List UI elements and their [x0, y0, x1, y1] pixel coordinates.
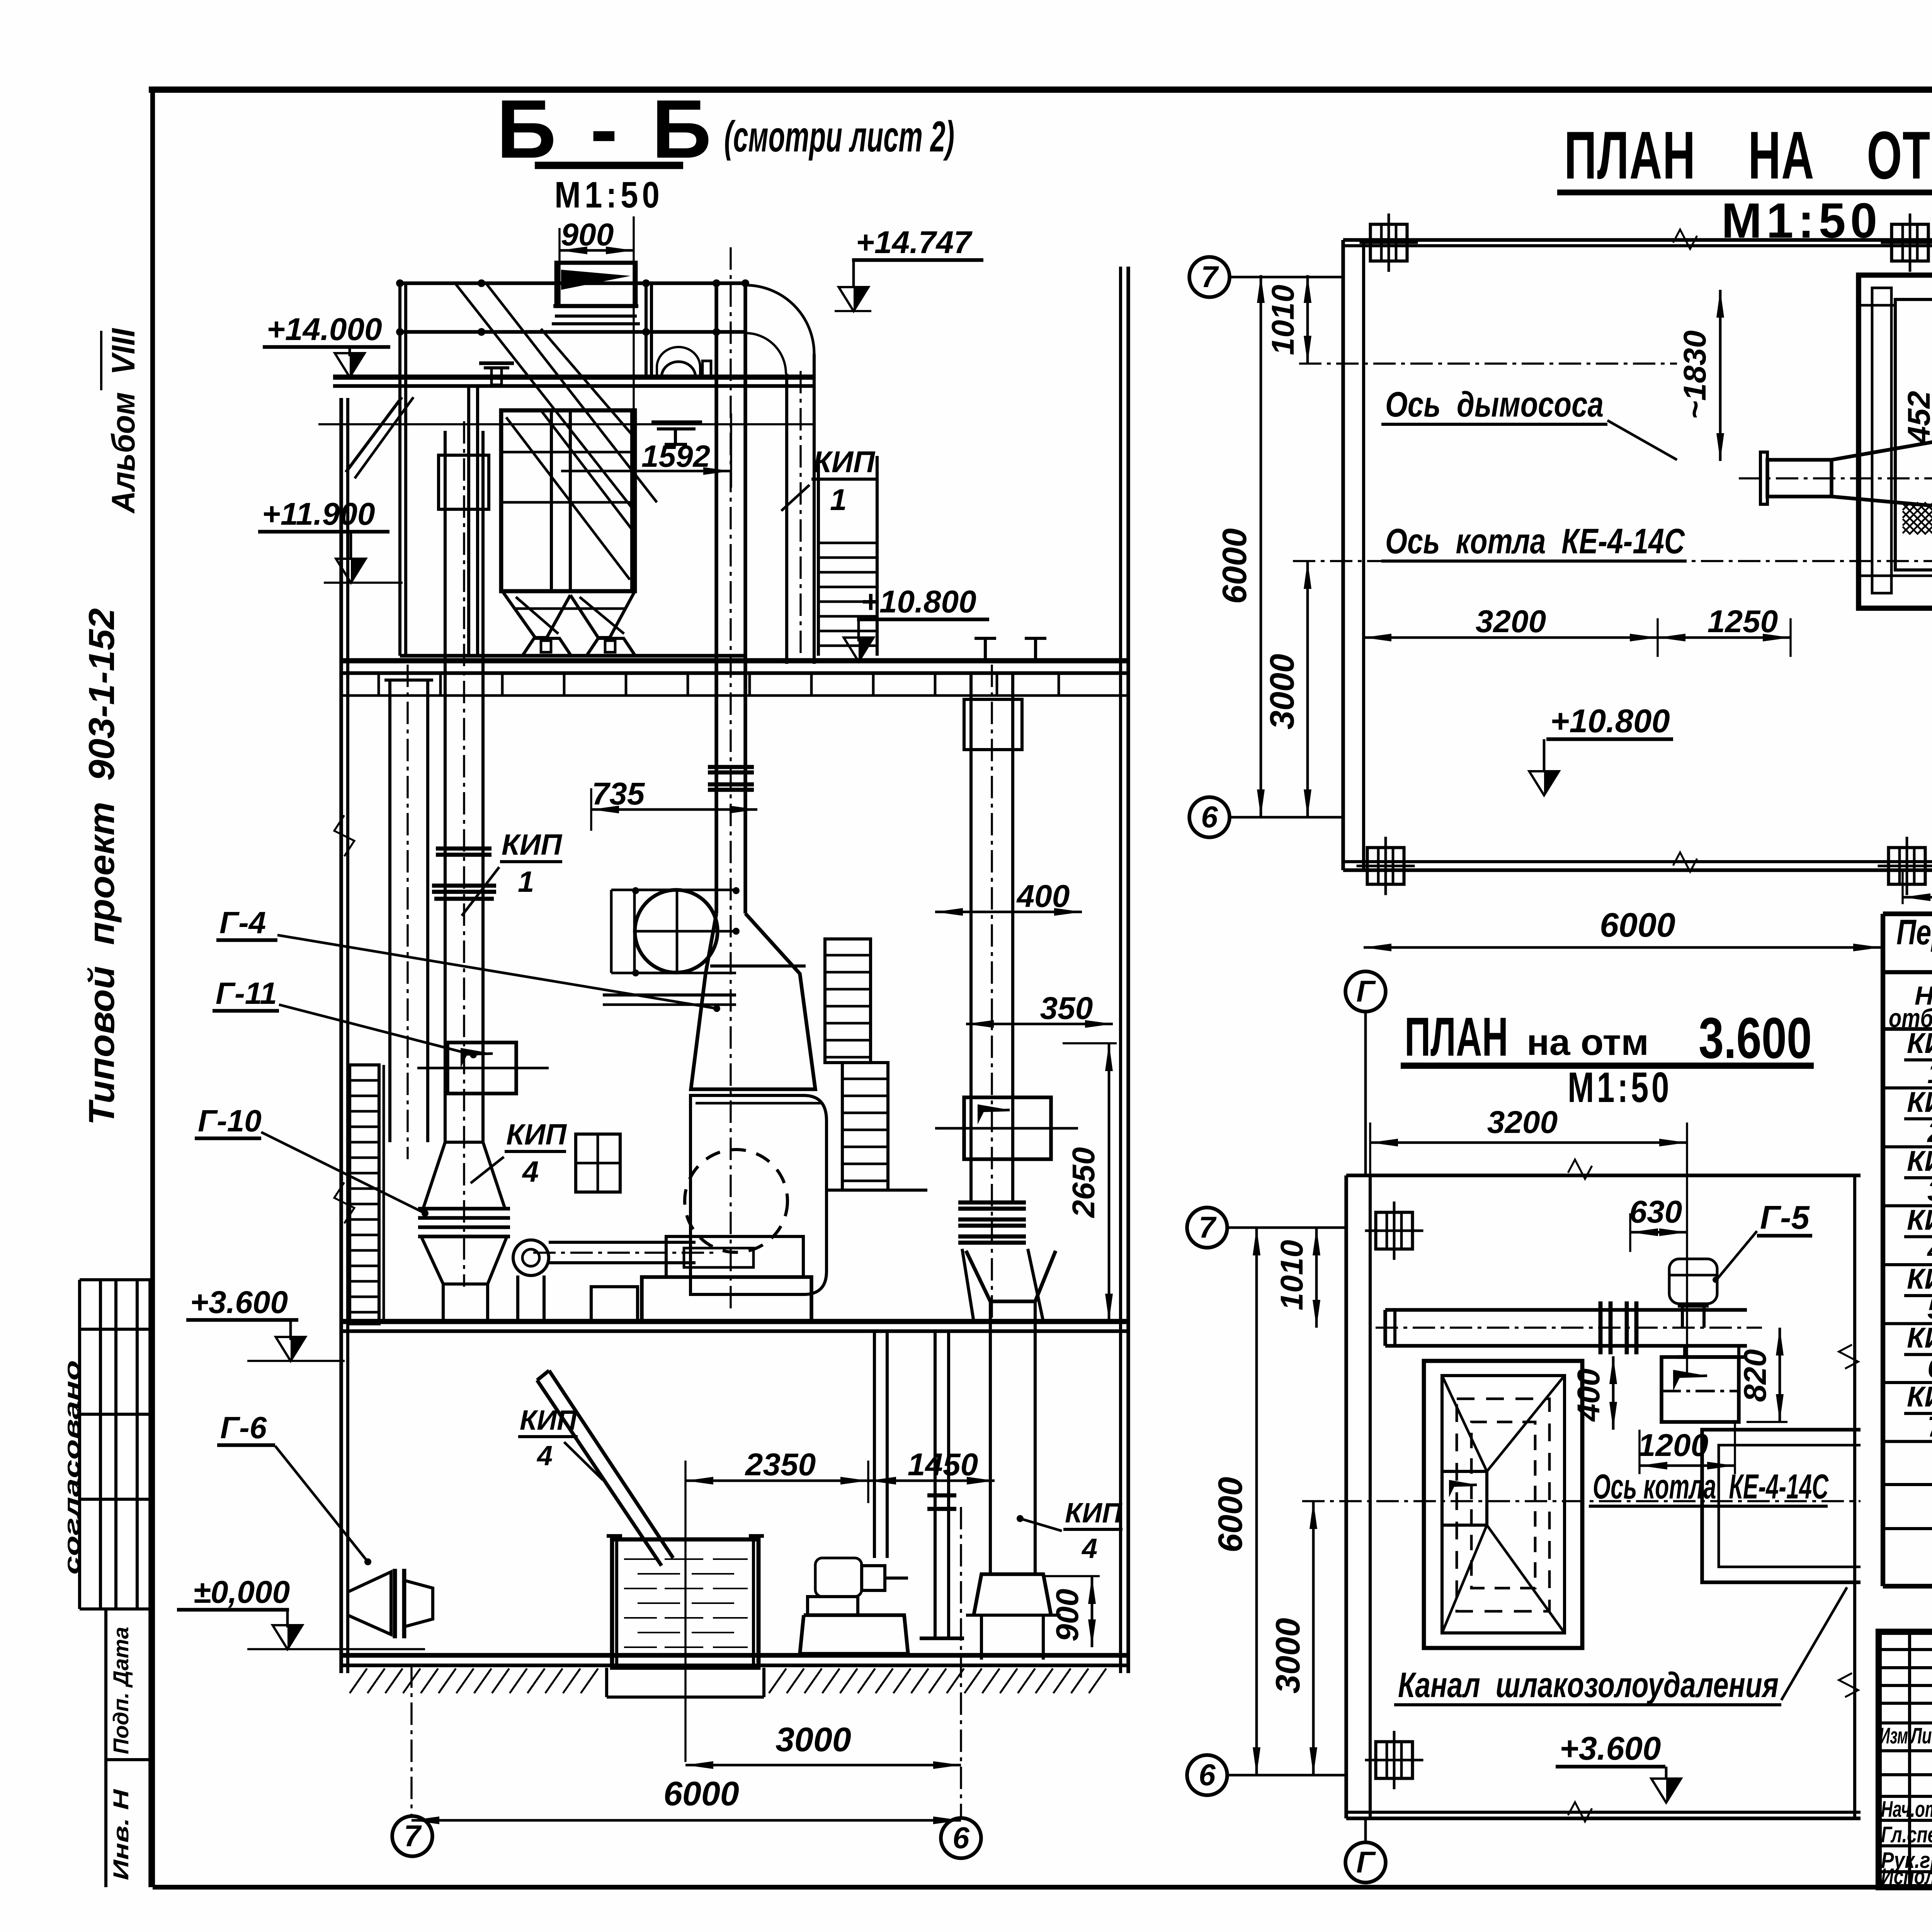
svg-text:КИП: КИП — [1907, 1086, 1932, 1118]
expansion cone left duct — [423, 1142, 505, 1209]
bottom left exhaust nozzle — [348, 1572, 391, 1634]
svg-text:М1:50: М1:50 — [1568, 1064, 1672, 1111]
pit diagonals — [1442, 1376, 1487, 1471]
svg-text:3000: 3000 — [1269, 1618, 1307, 1694]
svg-text:КИП: КИП — [1907, 1027, 1932, 1059]
suction pipe plan3600 — [1385, 1308, 1747, 1312]
svg-text:КИП: КИП — [502, 828, 562, 861]
svg-text:Г-6: Г-6 — [220, 1410, 267, 1445]
sheet frame — [149, 87, 1932, 93]
svg-text:Г-11: Г-11 — [216, 976, 277, 1010]
svg-text:1: 1 — [1927, 1057, 1932, 1089]
dim 2350 — [685, 1480, 868, 1482]
svg-text:Г-10: Г-10 — [198, 1104, 262, 1138]
damper box on duct — [447, 1043, 516, 1094]
svg-text:Инв. Н: Инв. Н — [109, 1789, 133, 1880]
svg-text:Лист: Лист — [1910, 1723, 1932, 1748]
boiler unit plan — [1859, 275, 1932, 608]
pump vertical pipe — [873, 1331, 876, 1558]
svg-text:Г: Г — [1356, 1845, 1376, 1879]
duct2 — [444, 431, 447, 1142]
svg-text:735: 735 — [592, 776, 645, 811]
tank pit — [605, 1668, 608, 1697]
axis line 6 — [960, 1507, 962, 1818]
svg-text:3000: 3000 — [1263, 654, 1301, 730]
svg-text:1200: 1200 — [1638, 1428, 1708, 1463]
svg-text:Ось котла КЕ-4-14С: Ось котла КЕ-4-14С — [1385, 522, 1685, 561]
dim 1450 — [868, 1480, 995, 1482]
svg-text:Подп. Дата: Подп. Дата — [109, 1627, 133, 1754]
svg-text:6000: 6000 — [1211, 1477, 1249, 1553]
svg-text:7: 7 — [404, 1819, 422, 1853]
svg-text:3.600: 3.600 — [1699, 1005, 1812, 1070]
svg-text:3000: 3000 — [776, 1720, 851, 1759]
svg-text:Типовой проект 903-1-152: Типовой проект 903-1-152 — [81, 608, 122, 1125]
grid box window — [576, 1134, 620, 1192]
bellows right duct — [958, 1201, 1026, 1205]
dim 630 — [1630, 1231, 1687, 1234]
platform small under fan — [603, 993, 736, 997]
chimney flanges — [708, 765, 754, 769]
svg-text:3: 3 — [1927, 1175, 1932, 1207]
svg-text:6000: 6000 — [1600, 906, 1675, 944]
svg-text:Альбом VIII: Альбом VIII — [105, 328, 141, 514]
svg-text:1010: 1010 — [1274, 1240, 1310, 1310]
slag channel pit — [1424, 1361, 1582, 1648]
upper diag braces — [456, 284, 634, 510]
svg-text:452: 452 — [1901, 391, 1932, 445]
svg-text:+3.600: +3.600 — [190, 1285, 288, 1320]
pit center box — [1442, 1471, 1487, 1525]
bracket strut left — [346, 397, 402, 472]
duct bend top — [745, 285, 814, 354]
axis дымососа — [1299, 362, 1677, 364]
air duct left — [388, 680, 391, 1142]
axis bubble 6 — [941, 1818, 981, 1858]
svg-text:1450: 1450 — [908, 1447, 978, 1482]
svg-text:Ось дымососа: Ось дымососа — [1385, 385, 1604, 424]
svg-text:Г-4: Г-4 — [219, 905, 266, 940]
dim 6000 plan10800 — [1260, 275, 1262, 817]
duct2 flanges — [436, 847, 492, 851]
svg-text:6: 6 — [1201, 800, 1218, 834]
axis bubble 7 — [392, 1816, 432, 1856]
title block left grid rows — [1879, 1648, 1932, 1651]
dim 1010 plan10800 — [1306, 275, 1309, 364]
right wall — [1119, 267, 1122, 1673]
svg-text:1: 1 — [518, 866, 534, 898]
break marks left wall — [334, 815, 354, 856]
svg-text:Изм: Изм — [1879, 1723, 1908, 1748]
согласовано block — [80, 1278, 150, 1281]
svg-text:2350: 2350 — [745, 1447, 816, 1482]
svg-text:КИП: КИП — [1907, 1381, 1932, 1413]
bubble 6 plan3600 — [1187, 1755, 1227, 1795]
title block outer — [1879, 1632, 1932, 1887]
damper box right duct — [964, 1097, 1051, 1159]
dim 6000 bottom plan — [1364, 946, 1881, 949]
ground hatch — [350, 1668, 598, 1693]
svg-text:400: 400 — [1571, 1369, 1606, 1422]
right duct kip4 — [969, 673, 973, 1202]
svg-text:900: 900 — [1050, 1589, 1085, 1642]
table outer — [1883, 912, 1932, 916]
dim 1250 plan10800 — [1658, 636, 1791, 639]
dim 3000 plan10800 — [1306, 561, 1309, 817]
bubble Г top — [1345, 971, 1386, 1012]
bubble 7 plan3600 — [1187, 1207, 1227, 1248]
svg-text:2: 2 — [1927, 1116, 1932, 1148]
svg-text:КИП: КИП — [506, 1118, 567, 1151]
svg-text:4: 4 — [1081, 1533, 1097, 1564]
floor joists — [378, 673, 380, 696]
right channel box — [1702, 1430, 1861, 1582]
horizontal pipe to boiler — [549, 1241, 696, 1244]
dim 735 — [591, 808, 757, 811]
svg-text:Б - Б: Б - Б — [497, 82, 717, 175]
svg-text:М1:50: М1:50 — [554, 174, 663, 216]
axis line 7 — [410, 1665, 412, 1816]
scrubber box — [690, 1095, 827, 1294]
floor slab +10.800 — [340, 658, 1128, 663]
stairs right of collector — [817, 456, 820, 656]
svg-text:400: 400 — [1016, 879, 1070, 914]
svg-text:6: 6 — [1927, 1352, 1932, 1384]
dim 6000 plan3600 — [1255, 1228, 1258, 1775]
dim 3000 plan3600 — [1312, 1501, 1315, 1775]
exhauster plan — [1767, 460, 1832, 497]
svg-text:820: 820 — [1738, 1349, 1773, 1402]
svg-text:7: 7 — [1201, 260, 1219, 294]
title block left grid verticals — [1908, 1632, 1911, 1887]
platform beams top — [400, 281, 745, 285]
chimney upper — [714, 283, 718, 913]
svg-text:1250: 1250 — [1708, 604, 1778, 639]
svg-text:КИП: КИП — [520, 1405, 578, 1436]
diffuser cone center — [691, 913, 815, 1089]
dome hatch on slab — [662, 362, 696, 377]
dim 3200 plan3600 — [1370, 1141, 1687, 1144]
svg-text:3200: 3200 — [1476, 604, 1546, 639]
svg-text:3200: 3200 — [1487, 1105, 1558, 1140]
svg-text:Нач.отд.: Нач.отд. — [1881, 1797, 1932, 1822]
svg-text:КИП: КИП — [1907, 1145, 1932, 1177]
dim 1200 — [1639, 1464, 1735, 1467]
dim 400 — [935, 911, 1082, 913]
platform legs — [398, 283, 401, 656]
svg-text:1: 1 — [830, 483, 847, 517]
svg-text:630: 630 — [1629, 1194, 1682, 1230]
dim 3000 bottom — [685, 1764, 961, 1767]
machine on +3.600 floor — [666, 1236, 803, 1277]
axis bubble 7 plan10800 — [1189, 257, 1230, 297]
svg-text:Перечень нормалей для установк: Перечень нормалей для установки отборных… — [1896, 913, 1932, 952]
svg-text:(смотри лист 2): (смотри лист 2) — [724, 112, 954, 161]
header bottom — [1883, 1027, 1932, 1031]
svg-text:6: 6 — [1199, 1758, 1216, 1792]
table empty row lines — [1883, 1483, 1932, 1486]
dim 400 plan3600 — [1612, 1356, 1615, 1430]
dust collector body — [501, 410, 635, 591]
motor on pipe — [1669, 1259, 1717, 1304]
right duct cone down — [962, 1249, 1043, 1321]
dim 350 — [966, 1023, 1113, 1026]
svg-text:900: 900 — [561, 217, 614, 252]
svg-text:+14.000: +14.000 — [267, 312, 382, 347]
right duct collar — [964, 699, 1022, 750]
floor slab 0.000 — [340, 1653, 1128, 1658]
svg-text:4: 4 — [522, 1155, 539, 1188]
svg-text:+11.900: +11.900 — [262, 497, 375, 532]
svg-text:4: 4 — [1927, 1234, 1932, 1266]
inclined chute — [549, 1371, 673, 1558]
pilasters plan10800 — [1371, 224, 1407, 261]
dim 1830 — [1719, 290, 1722, 461]
svg-text:+10.800: +10.800 — [1550, 703, 1670, 740]
plan 3600 walls — [1346, 1173, 1861, 1177]
svg-text:ПЛАН: ПЛАН — [1405, 1006, 1508, 1068]
table header row — [1883, 970, 1932, 975]
svg-text:КИП: КИП — [813, 445, 876, 479]
bubble Г bottom — [1345, 1842, 1386, 1883]
svg-text:согласовано: согласовано — [60, 1360, 84, 1575]
svg-text:КИП: КИП — [1065, 1498, 1123, 1529]
dim 900 vert — [1091, 1576, 1094, 1647]
elbow box below pipe — [1683, 1346, 1686, 1357]
dim 2650 — [1108, 1043, 1111, 1321]
dim 6000 bottom — [412, 1819, 961, 1822]
handrail posts on floor — [984, 638, 987, 661]
elbow pipe small — [513, 1240, 549, 1276]
dim 1500 plan — [1903, 896, 1932, 899]
top hopper box — [556, 263, 636, 306]
svg-text:Гл.спец.: Гл.спец. — [1881, 1822, 1932, 1847]
svg-text:ПЛАН НА ОТМ. 10.800: ПЛАН НА ОТМ. 10.800 — [1564, 118, 1932, 193]
dim 1010 plan3600 — [1315, 1228, 1318, 1328]
svg-text:на отм: на отм — [1527, 1022, 1649, 1063]
svg-text:КИП: КИП — [1907, 1263, 1932, 1295]
svg-text:+3.600: +3.600 — [1560, 1730, 1661, 1767]
axis bubble 6 plan10800 — [1189, 797, 1230, 837]
svg-text:5: 5 — [1927, 1293, 1932, 1325]
svg-text:6000: 6000 — [1215, 528, 1253, 604]
svg-text:350: 350 — [1040, 991, 1093, 1026]
dim 820 — [1779, 1328, 1781, 1422]
ladder left wall — [350, 1065, 379, 1324]
svg-text:+14.747: +14.747 — [856, 225, 973, 260]
plan walls — [1343, 238, 1932, 242]
svg-text:7: 7 — [1927, 1411, 1932, 1443]
small vent on slab — [479, 361, 514, 365]
svg-text:±0,000: ±0,000 — [193, 1575, 290, 1610]
svg-text:2650: 2650 — [1066, 1147, 1101, 1218]
dim 900 top — [560, 249, 634, 252]
wall break marks — [1673, 230, 1697, 249]
svg-text:Канал шлакозолоудаления: Канал шлакозолоудаления — [1398, 1665, 1779, 1705]
svg-text:7: 7 — [1199, 1210, 1217, 1244]
pilasters plan3600 — [1376, 1213, 1413, 1249]
fan circle mid — [635, 890, 718, 973]
svg-text:Исполн.: Исполн. — [1881, 1864, 1932, 1889]
svg-text:4: 4 — [536, 1440, 553, 1471]
second pipe with flanges — [934, 1331, 937, 1638]
svg-text:КИП: КИП — [1907, 1204, 1932, 1236]
kip duct down right — [785, 374, 788, 664]
подп дата box — [104, 1609, 107, 1887]
platform slab +14.000 — [333, 374, 814, 380]
pipe flanges — [1599, 1301, 1603, 1354]
svg-text:6: 6 — [952, 1821, 969, 1855]
hopper support floor — [400, 654, 744, 658]
stairs mid right — [825, 939, 871, 1063]
svg-text:~1830: ~1830 — [1677, 330, 1713, 419]
svg-text:Г-5: Г-5 — [1760, 1199, 1810, 1236]
pump and motor — [815, 1558, 862, 1597]
sampling port fitting — [651, 420, 702, 423]
svg-text:Г: Г — [1356, 974, 1376, 1008]
floor slab +3.600 — [340, 1319, 1128, 1324]
svg-text:1010: 1010 — [1265, 285, 1301, 355]
cone feet — [522, 638, 571, 656]
svg-text:6000: 6000 — [663, 1774, 739, 1813]
small box left on floor — [591, 1287, 638, 1321]
right fan unit bottom — [966, 1251, 1056, 1301]
dim 3200 plan10800 — [1364, 636, 1658, 639]
3600 wall breaks — [1568, 1160, 1592, 1179]
flange stack — [418, 1207, 510, 1211]
lower taper — [421, 1236, 507, 1284]
left wall — [339, 398, 343, 1673]
collector cones — [502, 591, 570, 638]
water tank — [612, 1539, 759, 1668]
svg-text:КИП: КИП — [1907, 1322, 1932, 1354]
duct2 collar top — [439, 455, 489, 509]
